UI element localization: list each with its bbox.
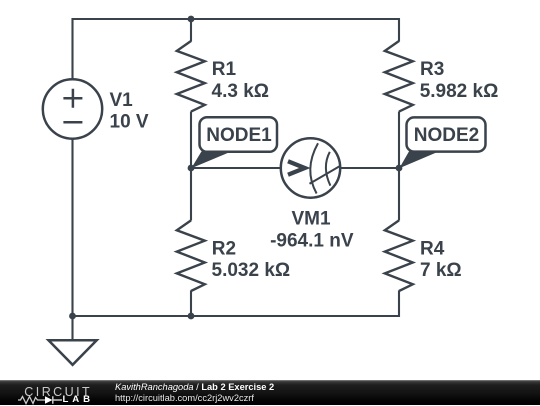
CircuitLab logo wordmark CIRCUIT (24, 386, 92, 398)
callout box NODE1 (200, 117, 278, 152)
NODE1 callout tail (191, 151, 231, 168)
resistor R3 (385, 41, 413, 112)
VM1 arrow glyph (288, 161, 305, 175)
wire top-left from V1 to top rail (73, 19, 192, 80)
logo diode (45, 396, 53, 404)
wire ground lead (71, 316, 73, 340)
voltage source V1 (43, 79, 102, 138)
svg-text:5.032 kΩ: 5.032 kΩ (212, 260, 291, 281)
VM1 meter arc inner (326, 152, 331, 186)
attribution line 1 (115, 383, 274, 392)
voltmeter VM1 (281, 138, 340, 197)
junction dot bottom rail R2 (188, 313, 195, 320)
attribution line 2 (115, 394, 254, 403)
svg-text:NODE1: NODE1 (206, 125, 272, 146)
VM1 needle (310, 166, 341, 184)
svg-text:VM1: VM1 (291, 209, 331, 230)
svg-text:R3: R3 (420, 59, 444, 80)
svg-text:R2: R2 (212, 239, 236, 260)
wire V1 bottom lead (71, 138, 73, 316)
wire R2 top lead (190, 168, 192, 221)
resistor R4 (385, 220, 413, 291)
logo resistor squiggle (18, 397, 45, 404)
wire R4 top lead (398, 168, 400, 221)
svg-text:V1: V1 (110, 90, 134, 111)
footer bar (0, 380, 540, 405)
junction dot bottom rail V1 (69, 313, 76, 320)
junction node NODE2 (396, 165, 403, 172)
wire R4 bottom lead to bottom rail (73, 291, 400, 317)
svg-text:NODE2: NODE2 (414, 125, 479, 146)
CircuitLab logo LAB (63, 395, 94, 405)
VM1 meter arc outer (310, 143, 318, 193)
CircuitLab logo schematic squiggle (18, 394, 68, 406)
wire voltmeter to NODE2 (340, 167, 399, 169)
resistor R2 (177, 220, 205, 291)
svg-text:-964.1 nV: -964.1 nV (270, 231, 354, 252)
callout box NODE2 (407, 117, 486, 151)
svg-text:4.3 kΩ: 4.3 kΩ (212, 81, 270, 102)
resistor R1 (177, 41, 205, 112)
junction dot top rail (188, 16, 195, 23)
wire R3 bottom lead to NODE2 (398, 112, 400, 169)
wire R2 bottom lead (190, 291, 192, 317)
wire NODE1 to voltmeter (191, 167, 281, 169)
svg-text:5.982 kΩ: 5.982 kΩ (420, 81, 499, 102)
svg-text:10 V: 10 V (110, 112, 149, 133)
wire R1 bottom lead to NODE1 (190, 112, 192, 169)
junction node NODE1 (188, 165, 195, 172)
svg-text:R4: R4 (420, 239, 445, 260)
svg-text:7 kΩ: 7 kΩ (420, 260, 462, 281)
ground (49, 340, 97, 365)
NODE2 callout tail (399, 151, 439, 168)
svg-text:R1: R1 (212, 59, 237, 80)
wire top rail right to R3 (191, 19, 399, 42)
V1 minus sign (63, 121, 82, 124)
V1 plus sign (63, 89, 82, 108)
wire R1 top lead (190, 19, 192, 42)
